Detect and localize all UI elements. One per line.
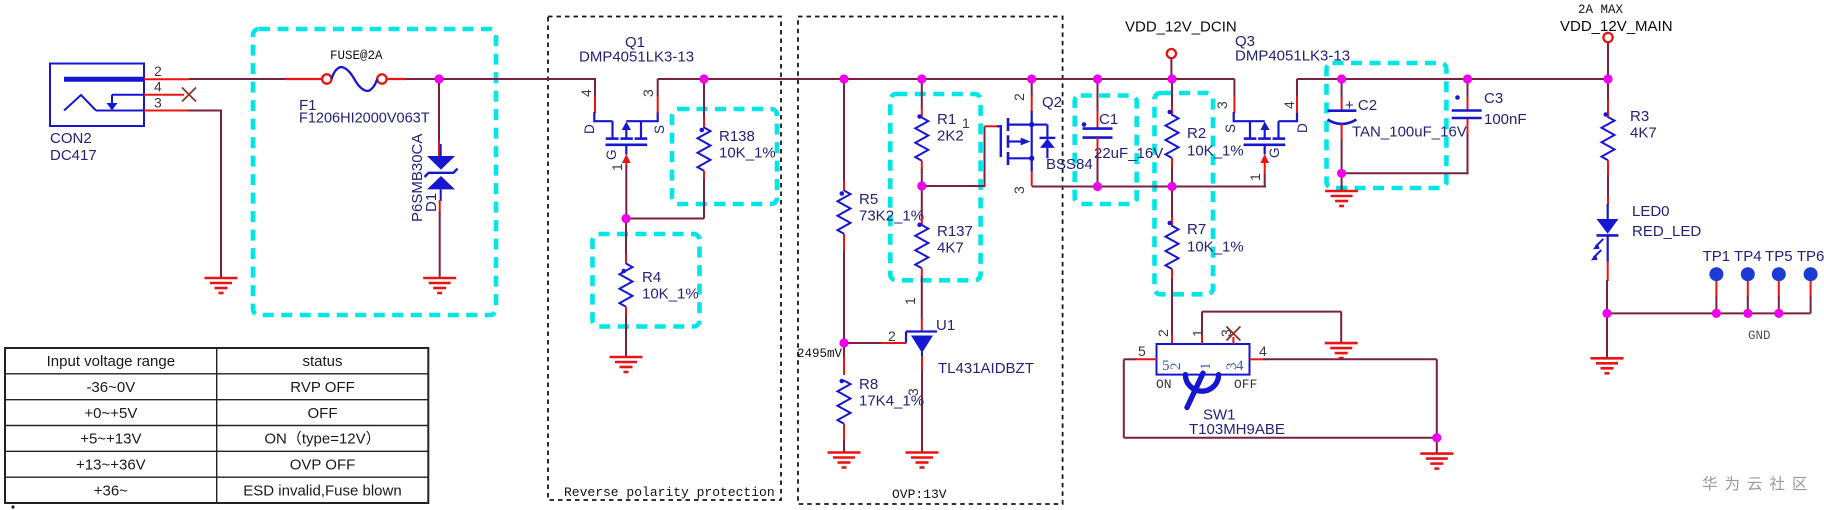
wire node G to Q2 gate <box>922 126 986 186</box>
wire SW1 pin2 stub <box>1171 335 1173 344</box>
label D1 <box>423 193 440 212</box>
svg-text:ON（type=12V）: ON（type=12V） <box>264 431 380 448</box>
wire SW1 pin5 loop <box>1124 359 1438 438</box>
C2 top stub <box>1341 97 1343 111</box>
capacitor C1 symbol <box>1082 122 1113 137</box>
C1 bottom stub <box>1097 138 1099 154</box>
label Q3 <box>1235 33 1350 65</box>
C1 top stub <box>1097 111 1099 128</box>
svg-text:OFF: OFF <box>308 405 338 422</box>
svg-text:2A MAX: 2A MAX <box>1578 3 1624 17</box>
svg-text:TAN_100uF_16V: TAN_100uF_16V <box>1352 124 1467 141</box>
svg-text:T103MH9ABE: T103MH9ABE <box>1189 421 1285 438</box>
wire rail Q1 to Q3 source <box>658 78 1235 80</box>
ground (C2) <box>1325 191 1358 206</box>
no-connect X on SW1 pin 3 <box>1226 327 1240 341</box>
label TAN_100uF_16V <box>1352 124 1467 141</box>
svg-text:VDD_12V_DCIN: VDD_12V_DCIN <box>1125 19 1237 36</box>
U1 ref stub <box>881 342 907 344</box>
node I junction (C1 bottom) <box>1093 182 1102 191</box>
R137 top stub <box>921 216 923 226</box>
label R4 <box>642 269 699 303</box>
svg-text:TP6: TP6 <box>1797 248 1824 265</box>
svg-text:D: D <box>582 124 597 134</box>
R4 bottom stub <box>625 307 627 316</box>
wire R3 to LED0 <box>1607 175 1609 198</box>
R5 bottom stub <box>843 234 845 252</box>
wire R2 to node J <box>1171 167 1173 187</box>
test point TP4 <box>1734 248 1762 318</box>
svg-text:2: 2 <box>1168 363 1184 371</box>
svg-text:F1206HI2000V063T: F1206HI2000V063T <box>299 111 430 127</box>
svg-text:2: 2 <box>1011 93 1027 101</box>
label S (Q3) <box>1223 124 1238 133</box>
wire node N to C3 bottom <box>1342 172 1469 174</box>
svg-text:ESD invalid,Fuse blown: ESD invalid,Fuse blown <box>243 482 401 499</box>
wire node C down to R4 <box>625 219 627 256</box>
wire R5 to ref node <box>843 251 845 344</box>
svg-text:TP1: TP1 <box>1703 248 1731 265</box>
svg-text:DC417: DC417 <box>50 147 97 164</box>
pin 1 number (U1 cathode) <box>902 297 918 305</box>
svg-text:2495mV: 2495mV <box>797 347 843 361</box>
wire node K down to C1 <box>1097 79 1099 112</box>
capacitor C2 symbol <box>1328 111 1357 124</box>
wire gnd rail <box>1607 312 1811 314</box>
svg-text:10K_1%: 10K_1% <box>1187 143 1244 160</box>
svg-text:C1: C1 <box>1099 111 1118 128</box>
resistor R137 <box>915 223 928 269</box>
pin 4 number (Q3 drain) <box>1281 101 1297 109</box>
svg-text:Q2: Q2 <box>1042 94 1062 111</box>
svg-text:Reverse polarity protection: Reverse polarity protection <box>564 485 775 500</box>
SW1 pin5 stub <box>1135 358 1157 360</box>
svg-text:3: 3 <box>154 95 162 111</box>
connector CON2 symbol <box>50 64 144 127</box>
svg-text:G: G <box>1267 147 1282 158</box>
Q2 source stub <box>1031 171 1033 186</box>
no-connect X on CON2 pin 4 <box>182 88 196 102</box>
wire gnd node to ground <box>1606 313 1608 359</box>
shunt regulator U1 symbol <box>906 332 937 358</box>
ground (main gnd) <box>1591 358 1624 373</box>
svg-text:GND: GND <box>1748 329 1771 343</box>
resistor R3 <box>1602 112 1615 160</box>
wire C1 to gate rail <box>1097 152 1099 187</box>
pin 2 stub (CON2) <box>144 78 189 80</box>
ground (SW1 pin1) <box>1325 343 1358 358</box>
svg-text:2: 2 <box>1155 329 1171 337</box>
pin 4 number (Q1 drain) <box>578 89 594 97</box>
wire R137 to U1 <box>921 276 923 319</box>
wire R4 to ground <box>625 315 627 357</box>
TVS diode D1 symbol <box>425 144 458 201</box>
label R2 <box>1187 125 1244 160</box>
svg-text:4: 4 <box>1281 101 1297 109</box>
svg-text:4: 4 <box>1236 358 1244 374</box>
Q3 drain stub <box>1296 95 1298 113</box>
node J junction (R2/R7) <box>1167 182 1176 191</box>
R1 top stub <box>921 108 923 118</box>
pin 3 number (SW1) <box>1218 329 1234 337</box>
capacitor C3 symbol <box>1452 95 1482 118</box>
node F junction (ref node) <box>839 338 848 347</box>
wire node M down to C2 <box>1341 79 1343 98</box>
wire node A down to D1 <box>438 81 440 142</box>
net label 2495mV <box>797 347 843 361</box>
Q2 source lead <box>1031 158 1033 171</box>
port VDD_12V_DCIN <box>1167 49 1176 58</box>
svg-text:华为云社区: 华为云社区 <box>1702 475 1815 493</box>
page corner mark <box>11 505 14 508</box>
svg-text:CON2: CON2 <box>50 130 92 147</box>
Q1 drain stub <box>594 95 596 113</box>
wire SW1 pin1 to ground <box>1202 312 1341 344</box>
node P junction (rail/R3) <box>1603 74 1612 83</box>
wire node B down to R138 <box>703 79 705 119</box>
Q3 gate red arrow <box>1260 154 1269 175</box>
fuse F1 symbol <box>322 67 387 91</box>
SW1 inner pin 5 <box>1162 358 1170 374</box>
R137 bottom stub <box>921 268 923 277</box>
label TL431AIDBZT <box>938 360 1034 377</box>
svg-text:TP4: TP4 <box>1734 248 1762 265</box>
Q1 source stub <box>657 95 659 113</box>
node B junction (rail/R138) <box>699 74 708 83</box>
wire Q3 gate down to rail <box>1264 174 1266 188</box>
pin 1 number (SW1) <box>1190 329 1206 337</box>
label R3 <box>1630 108 1657 142</box>
R138 top stub <box>703 118 705 128</box>
net label VDD_12V_DCIN <box>1125 19 1237 36</box>
table: input voltage range vs status <box>5 348 428 503</box>
svg-text:1: 1 <box>902 297 918 305</box>
svg-text:+36~: +36~ <box>94 482 128 499</box>
R8 top stub <box>843 356 845 375</box>
U1 anode stub <box>921 356 923 372</box>
node Q junction (gnd rail) <box>1602 309 1611 318</box>
pin 2 number (SW1) <box>1155 329 1171 337</box>
svg-text:R8: R8 <box>859 376 878 393</box>
svg-text:2K2: 2K2 <box>937 128 964 145</box>
label S (Q1) <box>652 125 667 134</box>
svg-text:VDD_12V_MAIN: VDD_12V_MAIN <box>1560 18 1673 35</box>
SW1 inner pin 3 <box>1224 363 1240 371</box>
svg-text:1: 1 <box>609 163 625 171</box>
wire node R to ground <box>1436 438 1438 454</box>
pin 2 number (U1 ref) <box>888 328 896 344</box>
C3 bottom stub <box>1467 119 1469 134</box>
label D (Q1) <box>582 124 597 134</box>
wire node G down to R137 <box>921 186 923 217</box>
svg-text:+13~+36V: +13~+36V <box>76 456 146 473</box>
pin 3 number (Q2 source) <box>1011 186 1027 194</box>
SW1 toggle lever symbol <box>1185 373 1218 407</box>
label LED0 <box>1632 203 1701 240</box>
svg-text:3: 3 <box>640 89 656 97</box>
svg-text:status: status <box>302 353 342 370</box>
wire into Q1 drain <box>594 79 596 96</box>
svg-text:OFF: OFF <box>1234 377 1257 392</box>
svg-text:BSS84: BSS84 <box>1046 156 1093 173</box>
wire fuse to node A <box>405 78 440 80</box>
wire Q1 source up to rail <box>657 79 659 96</box>
cyan highlight box: C2 <box>1327 63 1447 188</box>
label D (Q3) <box>1295 123 1310 133</box>
wire R1 to node G <box>921 169 923 187</box>
SW1 inner pin 1 <box>1198 363 1214 371</box>
wire node F down to R8 <box>843 343 845 357</box>
svg-text:73K2_1%: 73K2_1% <box>859 208 924 225</box>
label 22uF_16V <box>1094 145 1163 162</box>
svg-text:-36~0V: -36~0V <box>86 379 135 396</box>
node C junction (gate/R4) <box>621 214 630 223</box>
wire node P down to R3 <box>1607 79 1609 100</box>
ground (U1) <box>906 453 939 468</box>
ground (SW1) <box>1420 454 1453 469</box>
Q2 gate stub <box>985 125 998 127</box>
label C2 <box>1345 97 1377 114</box>
svg-text:1: 1 <box>1198 363 1214 371</box>
pin 1 number (Q1 gate) <box>609 163 625 171</box>
wire port VDD main down <box>1607 42 1609 80</box>
LED0 cathode stub <box>1607 261 1609 281</box>
svg-text:3: 3 <box>1214 101 1230 109</box>
R8 bottom stub <box>843 424 845 441</box>
svg-text:2: 2 <box>154 63 162 79</box>
section label: Reverse polarity protection <box>564 485 775 500</box>
resistor R7 <box>1166 221 1179 269</box>
label CON2 <box>50 130 97 164</box>
cyan highlight box: R138 <box>672 109 777 204</box>
svg-text:1: 1 <box>1247 173 1263 181</box>
node K junction (rail/C1) <box>1093 74 1102 83</box>
wire C3 down to node N wire <box>1467 133 1469 174</box>
R7 bottom stub <box>1171 269 1173 279</box>
pin 2 number (Q2 drain) <box>1011 93 1027 101</box>
label R138 <box>719 128 776 162</box>
pin 5 number (SW1) <box>1138 343 1146 359</box>
svg-text:R2: R2 <box>1187 125 1206 142</box>
R138 bottom stub <box>703 171 705 180</box>
node O junction (rail/C3) <box>1463 74 1472 83</box>
svg-text:22uF_16V: 22uF_16V <box>1094 145 1163 162</box>
resistor R138 <box>698 128 711 171</box>
svg-text:OVP:13V: OVP:13V <box>892 487 947 502</box>
svg-text:RVP OFF: RVP OFF <box>290 379 354 396</box>
cyan highlight box: R2 + R7 <box>1155 93 1214 294</box>
net label VDD_12V_MAIN <box>1560 18 1673 35</box>
resistor R8 <box>838 379 851 424</box>
svg-text:R138: R138 <box>719 128 755 145</box>
svg-text:S: S <box>1223 124 1238 133</box>
U1 cathode stub <box>921 318 923 331</box>
R3 top stub <box>1607 99 1609 118</box>
R7 top stub <box>1171 217 1173 227</box>
watermark <box>1702 475 1815 493</box>
R4 top stub <box>625 254 627 264</box>
node L junction (rail/R2) <box>1167 74 1176 83</box>
ground (R8) <box>828 453 861 468</box>
label P6SMB30CA <box>409 134 426 222</box>
svg-text:RED_LED: RED_LED <box>1632 223 1701 240</box>
svg-text:S: S <box>652 125 667 134</box>
R2 top stub <box>1171 106 1173 116</box>
svg-text:LED0: LED0 <box>1632 203 1670 220</box>
svg-text:DMP4051LK3-13: DMP4051LK3-13 <box>579 49 694 66</box>
LED0 anode stub <box>1607 197 1609 205</box>
svg-text:4K7: 4K7 <box>1630 125 1657 142</box>
SW1 pin3 stub <box>1232 337 1234 344</box>
R3 bottom stub <box>1607 160 1609 176</box>
SW1 inner pin 4 <box>1236 358 1244 374</box>
wire port to rail <box>1170 58 1172 80</box>
section label: OVP:13V <box>892 487 947 502</box>
wire node L down to R2 <box>1171 79 1173 107</box>
svg-text:C3: C3 <box>1484 90 1503 107</box>
section box: OVP 13V <box>798 17 1063 505</box>
label FUSE@2A <box>330 49 383 63</box>
svg-text:R3: R3 <box>1630 108 1649 125</box>
resistor R2 <box>1166 110 1179 158</box>
node M junction (rail/C2) <box>1337 74 1346 83</box>
pin 4 stub (CON2) <box>144 94 184 96</box>
transistor Q3 symbol <box>1234 112 1297 155</box>
test point TP5 <box>1765 248 1793 318</box>
wire rail Q3 drain to VDD main <box>1297 78 1608 80</box>
wire node H down to Q2 <box>1031 79 1033 96</box>
wire Q2 source to Q3 gate rail <box>1032 186 1266 188</box>
svg-text:TL431AIDBZT: TL431AIDBZT <box>938 360 1034 377</box>
wire R8 to ground <box>843 440 845 453</box>
section box: Reverse polarity protection <box>548 17 781 501</box>
label GND <box>1748 329 1771 343</box>
pin 4 number (SW1) <box>1259 343 1267 359</box>
wire node D down to R5 <box>843 79 845 182</box>
pin 3 number (U1 anode) <box>905 388 921 396</box>
svg-text:10K_1%: 10K_1% <box>642 286 699 303</box>
SW1 pin1 stub <box>1201 335 1203 344</box>
transistor Q2 symbol <box>997 111 1055 165</box>
svg-text:R4: R4 <box>642 269 661 286</box>
cyan highlight box: C1 <box>1075 96 1137 205</box>
node D junction (rail/R5) <box>839 74 848 83</box>
test point TP6 <box>1797 248 1824 313</box>
pin 3 number (Q1 source) <box>640 89 656 97</box>
ground (R4) <box>610 357 643 372</box>
SW1 pin4 stub <box>1250 358 1265 360</box>
svg-text:+0~+5V: +0~+5V <box>84 405 137 422</box>
switch SW1 body <box>1157 344 1250 375</box>
svg-text:ON: ON <box>1156 377 1172 392</box>
R5 top stub <box>843 181 845 191</box>
wire U1 anode to ground <box>921 371 923 453</box>
Q2 drain stub <box>1031 95 1033 112</box>
pin 3 number (Q3 source) <box>1214 101 1230 109</box>
R1 bottom stub <box>921 161 923 170</box>
node N junction (C2 bottom) <box>1337 169 1346 178</box>
label ON <box>1156 377 1172 392</box>
svg-text:17K4_1%: 17K4_1% <box>859 393 924 410</box>
cyan highlight box: fuse + TVS <box>253 29 496 315</box>
svg-text:1: 1 <box>962 115 970 131</box>
label F1 <box>299 97 430 127</box>
resistor R5 <box>838 191 851 234</box>
svg-text:+5~+13V: +5~+13V <box>80 431 141 448</box>
label SW1 <box>1189 407 1285 439</box>
label R8 <box>859 376 924 410</box>
pin 3 stub (CON2) <box>144 110 188 112</box>
svg-text:OVP OFF: OVP OFF <box>290 456 356 473</box>
wire node N to ground <box>1341 173 1343 192</box>
resistor R1 <box>915 114 928 161</box>
wire SW1 pin4 to gnd <box>1264 359 1437 438</box>
label G (Q1) <box>604 149 619 160</box>
fuse F1 left stub <box>285 78 322 80</box>
ground (CON2 pin 3) <box>205 278 238 293</box>
node G junction (divider) <box>917 181 926 190</box>
svg-text:10K_1%: 10K_1% <box>1187 239 1244 256</box>
label C1 <box>1099 111 1118 128</box>
svg-text:R137: R137 <box>937 223 973 240</box>
pin 4 number (CON2) <box>154 79 162 95</box>
svg-text:R1: R1 <box>937 111 956 128</box>
svg-text:D: D <box>1295 123 1310 133</box>
resistor R4 <box>620 264 633 307</box>
fuse F1 right stub <box>387 78 407 80</box>
pin 2 number (CON2) <box>154 63 162 79</box>
svg-text:DMP4051LK3-13: DMP4051LK3-13 <box>1235 48 1350 65</box>
svg-text:G: G <box>604 149 619 160</box>
port VDD_12V_MAIN <box>1603 33 1612 42</box>
label Q2 <box>1042 94 1062 111</box>
pin 1 number (Q3 gate) <box>1247 173 1263 181</box>
label R5 <box>859 191 924 225</box>
svg-text:5: 5 <box>1138 343 1146 359</box>
node A junction (fuse/D1) <box>434 74 443 83</box>
wire node A to Q1 drain <box>439 78 596 80</box>
svg-text:4: 4 <box>578 89 594 97</box>
svg-text:U1: U1 <box>936 317 955 334</box>
wire Q3 drain up to rail <box>1297 79 1342 96</box>
SW1 inner pin 2 <box>1168 363 1184 371</box>
label OFF <box>1234 377 1257 392</box>
label G (Q3) <box>1267 147 1282 158</box>
Q1 gate red arrow <box>622 154 631 167</box>
wire R7 to SW1 pin2 <box>1171 278 1173 336</box>
wire node E down to R1 <box>921 79 923 109</box>
C3 top stub <box>1467 97 1469 110</box>
label R1 <box>937 111 964 145</box>
svg-text:FUSE@2A: FUSE@2A <box>330 49 383 63</box>
wire Q1 gate down <box>625 166 627 220</box>
C2 bottom stub <box>1341 124 1343 141</box>
svg-text:4: 4 <box>1259 343 1267 359</box>
pin 3 number (CON2) <box>154 95 162 111</box>
svg-text:R5: R5 <box>859 191 878 208</box>
label BSS84 <box>1046 156 1093 173</box>
wire CON2 pin3 to ground <box>188 111 222 279</box>
svg-text:Input voltage range: Input voltage range <box>47 353 175 370</box>
ground (D1) <box>423 278 456 293</box>
svg-text:10K_1%: 10K_1% <box>719 145 776 162</box>
label U1 <box>936 317 955 334</box>
svg-text:100nF: 100nF <box>1484 111 1527 128</box>
svg-text:R7: R7 <box>1187 221 1206 238</box>
svg-text:4K7: 4K7 <box>937 240 964 257</box>
wire LED0 to gnd rail <box>1606 280 1608 314</box>
node R junction (SW1 gnd) <box>1432 433 1441 442</box>
